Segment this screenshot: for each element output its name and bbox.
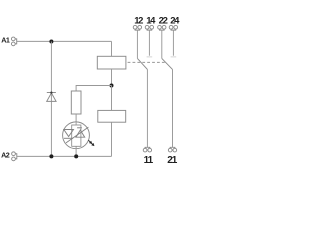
terminal 22	[158, 25, 166, 30]
contact lever K1.1	[137, 58, 147, 69]
LED emission arrow 2	[91, 142, 95, 146]
node junction A1/diode branch	[49, 40, 53, 44]
wire diode branch vertical	[50, 42, 52, 157]
wire common 11	[146, 69, 148, 147]
NO contact seat 14	[147, 56, 153, 58]
wire A1 horizontal	[17, 40, 112, 42]
wire A2 horizontal	[17, 155, 112, 157]
terminal 14	[145, 25, 153, 30]
wire 22 to NC contact	[161, 30, 163, 58]
LED right cathode bar	[77, 127, 82, 129]
input block U1	[97, 56, 126, 69]
terminal 21	[168, 147, 176, 152]
svg-text:21: 21	[167, 155, 178, 166]
terminal A2	[12, 152, 17, 161]
dashed actuation link	[128, 61, 166, 63]
svg-text:A2: A2	[1, 150, 10, 159]
wire 14 to NO contact	[148, 30, 150, 56]
node LED branch tap	[110, 84, 114, 88]
wire common 21	[172, 69, 174, 147]
diode V1 triangle	[47, 93, 56, 101]
wire U1 to tap node	[111, 69, 113, 86]
wire LED branch horizontal	[76, 86, 111, 92]
LED left cathode bar	[64, 137, 73, 139]
NO contact seat 24	[171, 56, 177, 58]
wire LED inner stub bottom	[75, 146, 77, 148]
terminal 12	[133, 25, 141, 30]
LED emission arrow 1	[88, 140, 92, 144]
terminal 24	[169, 25, 177, 30]
LED inner frame	[72, 125, 81, 146]
terminal 11	[143, 147, 151, 152]
LED diagonal	[66, 127, 88, 143]
LED right triangle up	[76, 130, 85, 137]
wire coil feed vertical	[111, 41, 113, 56]
wire 24 to NO contact	[172, 30, 174, 56]
node junction A2/LED	[74, 154, 78, 158]
wire R1 to LED	[75, 114, 77, 122]
svg-text:11: 11	[144, 155, 154, 166]
LED indicator D1 circle	[63, 122, 90, 149]
contact lever K1.2	[162, 58, 173, 69]
LED left triangle down	[64, 130, 74, 137]
wire LED to A2 rail	[75, 149, 77, 157]
resistor R1	[71, 91, 81, 114]
node junction A2/diode	[49, 154, 53, 158]
wire 12 to NC contact	[136, 30, 138, 58]
diode V1 cathode bar	[47, 92, 56, 94]
relay coil U2	[98, 110, 126, 122]
terminal A1	[11, 37, 16, 46]
wire U2 to A2 rail	[111, 122, 113, 156]
node diode cathode	[50, 92, 52, 94]
wire LED inner stub top	[75, 122, 77, 125]
wire tap node to U2	[111, 86, 113, 111]
svg-text:A1: A1	[1, 35, 10, 44]
